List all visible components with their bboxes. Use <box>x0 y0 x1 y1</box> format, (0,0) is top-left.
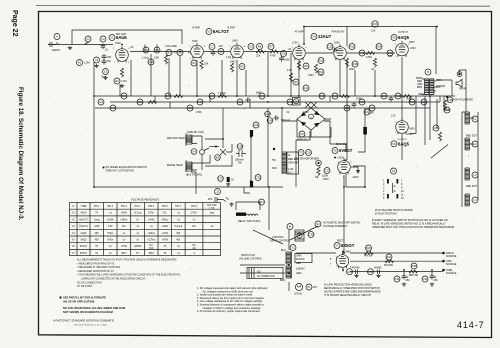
tube V2 label <box>206 29 229 35</box>
svg-text:C43: C43 <box>149 60 154 64</box>
svg-text:C31: C31 <box>347 270 352 274</box>
svg-text:2.2mg: 2.2mg <box>142 57 149 60</box>
svg-text:R25: R25 <box>333 94 338 98</box>
tube V7 6X5GT <box>330 251 352 270</box>
svg-text:+ MEASURED FROM PINS OF V5: + MEASURED FROM PINS OF V5 <box>77 262 115 265</box>
svg-text:40/450: 40/450 <box>352 267 360 270</box>
channel resistor R27 <box>406 98 415 106</box>
svg-text:100K: 100K <box>284 59 290 62</box>
resistor R11 <box>318 69 324 75</box>
ground input <box>68 46 72 50</box>
wire AVC loop top <box>72 30 182 45</box>
svg-text:SPKR: SPKR <box>459 88 466 91</box>
svg-text:PIN 4: PIN 4 <box>135 206 141 208</box>
svg-text:12AU7A: 12AU7A <box>79 225 88 228</box>
svg-text:+7KW: +7KW <box>162 240 169 242</box>
svg-text:C8: C8 <box>219 50 223 54</box>
wire V6 secondary drops <box>410 96 448 158</box>
svg-text:RED DOT: RED DOT <box>466 185 477 188</box>
svg-text:-240V: -240V <box>352 176 359 179</box>
svg-text:+320V: +320V <box>337 157 344 160</box>
capacitor C15 non-polarized <box>443 96 473 112</box>
svg-text:* MEASURED IN "RECORD" POSIT: * MEASURED IN "RECORD" POSITION <box>77 266 120 269</box>
svg-text:VOLUME: VOLUME <box>165 44 177 48</box>
svg-text:R44: R44 <box>370 106 375 110</box>
numbered notes <box>197 287 268 313</box>
table footnotes <box>77 259 181 289</box>
head switch SW2c X <box>215 144 232 160</box>
svg-text:BIAS OSC: BIAS OSC <box>336 143 348 146</box>
neon lamp NE1 <box>315 160 321 179</box>
boxed test point <box>293 98 301 106</box>
svg-text:C29: C29 <box>422 100 427 104</box>
channel capacitor C22 <box>381 93 393 102</box>
svg-text:V8: V8 <box>333 149 337 153</box>
svg-text:6X5GT: 6X5GT <box>80 253 88 255</box>
svg-text:R10: R10 <box>319 59 324 63</box>
svg-text:PL: PL <box>307 285 311 289</box>
svg-text:140V: 140V <box>232 40 238 43</box>
svg-text:6AQ5: 6AQ5 <box>81 232 88 235</box>
svg-text:1meg: 1meg <box>94 219 100 221</box>
svg-text:45K: 45K <box>95 233 100 235</box>
parts list note <box>59 296 125 314</box>
record head <box>167 131 204 149</box>
svg-text:R30: R30 <box>366 246 371 250</box>
svg-text:PIN 6: PIN 6 <box>162 206 168 208</box>
svg-text:B: B <box>295 99 297 103</box>
svg-text:±NC: ±NC <box>149 248 154 250</box>
svg-text:240V: 240V <box>308 74 314 77</box>
resistor R30 <box>364 245 374 258</box>
osc refs C45 <box>267 116 290 124</box>
svg-text:C9: C9 <box>249 45 253 49</box>
wire interconnect channel line 2 <box>110 101 440 103</box>
capacitor C32 <box>368 267 383 278</box>
svg-text:GRN: GRN <box>418 93 424 96</box>
wire main input bus <box>48 44 113 46</box>
switch legend SW1 <box>375 168 413 216</box>
svg-text:C10: C10 <box>281 52 286 56</box>
svg-text:6AL7GT: 6AL7GT <box>213 29 229 34</box>
svg-text:V1: V1 <box>110 36 114 40</box>
svg-text:TP: TP <box>163 253 166 255</box>
svg-text:GRN-WH: GRN-WH <box>288 162 299 165</box>
svg-text:R1: R1 <box>78 61 82 65</box>
test point A <box>54 34 60 40</box>
svg-text:R2: R2 <box>115 79 119 83</box>
svg-text:SOURCE: SOURCE <box>446 255 457 258</box>
svg-text:OPEN IN 7 1/2 POSITION: OPEN IN 7 1/2 POSITION <box>106 170 135 173</box>
wire head switch vertical <box>222 108 224 148</box>
svg-text:NE: NE <box>315 176 319 179</box>
channel ref R43 <box>196 99 203 114</box>
voltage table <box>70 198 221 256</box>
svg-text:RED DOT: RED DOT <box>466 135 477 138</box>
resistor R45 <box>352 61 358 67</box>
svg-text:NC: NC <box>192 245 196 247</box>
switch version note <box>372 219 454 229</box>
channel resistor R28 <box>319 93 325 99</box>
capacitor C13 <box>387 50 393 56</box>
capacitor C3 <box>94 57 100 63</box>
channel resistor R25 <box>332 93 350 99</box>
channel capacitor C29 <box>421 99 427 105</box>
svg-text:V6: V6 <box>392 142 396 146</box>
svg-text:RECORD HEAD: RECORD HEAD <box>167 137 185 140</box>
pilot lamp PL1 <box>294 283 318 295</box>
electrolytic C24 <box>250 122 259 137</box>
svg-text:R6: R6 <box>258 45 262 49</box>
svg-text:C7: C7 <box>210 45 214 49</box>
svg-text:C41: C41 <box>99 100 104 104</box>
svg-text:C28: C28 <box>345 106 350 110</box>
svg-text:380V: 380V <box>149 253 155 255</box>
svg-text:6.8K: 6.8K <box>154 57 159 60</box>
svg-text:C40: C40 <box>144 48 149 52</box>
svg-text:470K: 470K <box>270 55 276 58</box>
svg-text:160V: 160V <box>334 42 340 45</box>
resistor R1 <box>77 60 90 66</box>
svg-text:TP: TP <box>95 213 98 215</box>
automatic shutoff note <box>253 221 361 244</box>
wire electrolytic link <box>250 137 252 181</box>
svg-text:470K: 470K <box>196 111 202 114</box>
svg-text:-Kw: -Kw <box>192 248 196 250</box>
svg-text:240V: 240V <box>409 128 415 131</box>
svg-text:C44: C44 <box>265 112 270 116</box>
svg-text:+127Kw: +127Kw <box>147 240 156 242</box>
svg-text:RELAY (SHUT-OFF): RELAY (SHUT-OFF) <box>238 220 260 223</box>
resistor R12 <box>345 44 355 72</box>
svg-text:NC: NC <box>163 213 167 215</box>
speed switch note <box>103 166 148 173</box>
svg-text:C1: C1 <box>86 37 90 41</box>
svg-text:R22: R22 <box>166 94 171 98</box>
svg-text:C37: C37 <box>218 177 223 181</box>
RECT label <box>334 240 355 249</box>
svg-text:240V: 240V <box>410 47 416 50</box>
svg-text:C25: C25 <box>256 176 261 180</box>
svg-text:C32: C32 <box>368 270 373 274</box>
svg-text:R33: R33 <box>412 264 417 268</box>
resistor R6 <box>256 44 265 58</box>
svg-text:400V: 400V <box>323 178 329 181</box>
svg-text:6. All controls at minimum,: 6. All controls at minimum, proper outpu… <box>197 310 260 313</box>
svg-text:C38: C38 <box>238 145 243 149</box>
resistor R2 <box>114 68 126 84</box>
svg-text:40/450: 40/450 <box>374 267 382 270</box>
svg-text:C42: C42 <box>288 100 293 104</box>
channel capacitor C21 <box>237 98 251 105</box>
svg-text:R27: R27 <box>410 100 415 104</box>
ground C3 <box>94 64 98 68</box>
svg-text:500mmf: 500mmf <box>281 119 290 122</box>
capacitor C5 <box>101 69 109 79</box>
svg-text:11K: 11K <box>122 226 126 228</box>
svg-text:SEE PARTS LIST FOR ALTERNATE: SEE PARTS LIST FOR ALTERNATE <box>63 296 106 300</box>
svg-text:A PHOTOFACT STANDARD NOTATI: A PHOTOFACT STANDARD NOTATION SCHEMATIC <box>53 319 114 323</box>
svg-text:380V: 380V <box>121 253 127 255</box>
head switch SW2a <box>191 148 209 154</box>
svg-text:240Kw: 240Kw <box>161 219 168 221</box>
svg-text:TUBE: TUBE <box>80 206 87 208</box>
svg-text:R23: R23 <box>210 94 215 98</box>
svg-text:AF AMP: AF AMP <box>295 31 304 34</box>
svg-text:+2.2mg: +2.2mg <box>134 213 142 215</box>
svg-text:50.1: 50.1 <box>288 172 293 175</box>
capacitor C1 <box>85 36 91 42</box>
svg-text:C11: C11 <box>304 86 309 90</box>
output transformer T1 <box>416 69 442 96</box>
svg-text:150V: 150V <box>115 42 121 45</box>
svg-text:IF AMP: IF AMP <box>227 27 235 30</box>
wire top feedback bus <box>304 27 436 75</box>
wire V2 to V3 signal <box>204 51 230 53</box>
svg-text:RL1: RL1 <box>259 200 264 204</box>
wire V1 to V2 signal <box>130 51 190 53</box>
coupling refs R41 <box>154 47 160 60</box>
svg-text:C3: C3 <box>95 58 99 62</box>
bias coil L4 <box>465 185 478 206</box>
svg-text:6AU6: 6AU6 <box>116 35 127 40</box>
oscillator coil L5 <box>272 148 286 174</box>
BIAS OSC label <box>332 143 353 154</box>
wire head box <box>186 134 232 188</box>
tube V4b 12AU7 <box>334 42 347 61</box>
svg-text:170V: 170V <box>292 42 298 45</box>
mic jack J2 <box>208 189 229 203</box>
svg-text:+16KW: +16KW <box>134 246 142 248</box>
svg-text:R24: R24 <box>260 94 265 98</box>
svg-text:TP: TP <box>163 246 166 248</box>
svg-text:BLU: BLU <box>281 249 286 252</box>
svg-text:R31: R31 <box>387 255 392 259</box>
svg-text:6X5GT: 6X5GT <box>341 243 355 248</box>
svg-text:C22: C22 <box>382 94 387 98</box>
wire drop phase inverter <box>339 60 341 96</box>
wire bias osc area <box>282 121 346 187</box>
wire interconnect channel line 3 <box>95 107 430 109</box>
scan page top edge <box>36 5 490 8</box>
svg-text:NON-POLARIZED: NON-POLARIZED <box>453 99 473 102</box>
resistor R5 <box>230 63 245 72</box>
wire V3 to AF signal <box>244 51 292 53</box>
electrolytic C25 <box>250 175 261 188</box>
ground mic <box>229 203 233 207</box>
svg-text:R14: R14 <box>377 45 382 49</box>
wire transformer drop <box>289 230 432 291</box>
scan noise speckles <box>43 19 478 330</box>
svg-text:VALUE OR APPLICATION: VALUE OR APPLICATION <box>63 299 94 303</box>
svg-text:• MEASURED FROM PINS OF V3: • MEASURED FROM PINS OF V3 <box>77 270 114 273</box>
svg-text:M: M <box>289 225 291 229</box>
svg-text:6V6GT: 6V6GT <box>80 246 88 248</box>
svg-text:IF AMP: IF AMP <box>192 27 200 30</box>
channel resistor R24 <box>256 92 265 100</box>
svg-text:PHASE INV: PHASE INV <box>332 31 345 34</box>
svg-text:6AQ5: 6AQ5 <box>81 239 88 242</box>
svg-text:60N 5W: 60N 5W <box>384 264 394 267</box>
svg-text:R8: R8 <box>304 64 308 68</box>
svg-text:C20: C20 <box>188 106 193 110</box>
svg-text:PIN 8: PIN 8 <box>191 206 197 208</box>
svg-text:R29: R29 <box>396 94 401 98</box>
svg-text:TP: TP <box>136 253 139 255</box>
capacitor C10 <box>279 51 290 62</box>
svg-text:R13: R13 <box>360 51 365 55</box>
svg-text:SOURCE: SOURCE <box>446 272 457 275</box>
svg-text:V5: V5 <box>392 36 396 40</box>
svg-text:NO COIL RESISTANCE VALUES UNDE: NO COIL RESISTANCE VALUES UNDER ONE OHM <box>63 306 125 310</box>
resistor R8 <box>297 61 314 77</box>
svg-text:+240K: +240K <box>148 219 155 221</box>
svg-text:S4: S4 <box>192 150 196 154</box>
tube V4 label 12AU7 <box>311 34 332 40</box>
svg-text:+7KW: +7KW <box>121 246 128 248</box>
svg-text:BLK: BLK <box>436 86 441 89</box>
tube V3 6AL7GT second <box>226 40 243 64</box>
tube V6 6AQ5 <box>391 115 415 147</box>
svg-text:V4: V4 <box>312 35 316 39</box>
capacitor C14 <box>433 125 442 141</box>
transformer secondary bracket <box>295 254 312 263</box>
capacitor C23 180mmf <box>235 150 246 165</box>
svg-text:VOLUME CONTROL: VOLUME CONTROL <box>239 258 263 261</box>
B+ arrows <box>442 252 457 275</box>
svg-text:+100K: +100K <box>107 219 114 221</box>
channel ref C42 <box>286 99 293 114</box>
svg-text:.12V: .12V <box>218 45 223 48</box>
head cap C37 <box>218 176 235 186</box>
capacitor C7 <box>209 44 215 56</box>
resistor R9 <box>287 69 299 85</box>
svg-text:R5: R5 <box>240 65 244 69</box>
svg-text:(BLK RF, 24N): (BLK RF, 24N) <box>186 174 202 177</box>
svg-text:R42: R42 <box>111 106 116 110</box>
wire coil column <box>462 112 478 207</box>
osc coil label box <box>287 152 299 175</box>
svg-text:+1BK: +1BK <box>94 226 100 228</box>
svg-text:A: A <box>56 35 58 39</box>
resistor R14 <box>371 44 382 72</box>
resistor R15 top bus <box>371 21 378 33</box>
channel resistor R20 <box>121 93 127 99</box>
svg-text:230VAC: 230VAC <box>296 268 305 271</box>
svg-text:6AQ5: 6AQ5 <box>398 35 410 40</box>
svg-text:ERASE HEAD: ERASE HEAD <box>167 164 183 167</box>
svg-text:C34: C34 <box>423 277 428 281</box>
svg-text:100K: 100K <box>368 112 374 115</box>
svg-text:PIN 1: PIN 1 <box>94 206 100 208</box>
svg-text:115VAC: 115VAC <box>296 258 305 261</box>
svg-text:140Kw: 140Kw <box>120 219 127 221</box>
svg-text:680K: 680K <box>256 92 262 95</box>
head switch dot <box>209 146 219 148</box>
svg-text:87Kw: 87Kw <box>107 240 113 242</box>
osc refs C44 <box>265 111 271 117</box>
svg-text:M1: M1 <box>300 132 304 136</box>
svg-text:2.2M: 2.2M <box>121 80 126 83</box>
svg-text:S3: S3 <box>316 222 320 226</box>
svg-text:PIN 7: PIN 7 <box>175 206 181 208</box>
capacitor C4 stack <box>102 54 112 65</box>
resistor R7 <box>268 44 279 58</box>
svg-text:60N: 60N <box>272 167 277 170</box>
capacitor C8 <box>218 45 224 55</box>
capacitor C11 <box>303 85 309 91</box>
wire power area <box>240 253 443 273</box>
svg-text:R7: R7 <box>269 45 273 49</box>
speaker wires <box>436 70 466 112</box>
svg-text:7V: 7V <box>188 52 191 55</box>
coupling cap C43 <box>148 59 154 65</box>
svg-text:C21: C21 <box>238 100 243 104</box>
capacitor C6 coupling <box>177 50 183 56</box>
svg-text:† THIS READING WILL VARY DEP: † THIS READING WILL VARY DEPENDING UPON … <box>77 274 181 277</box>
svg-text:450: 450 <box>406 279 411 282</box>
svg-text:6V6GT: 6V6GT <box>339 148 353 153</box>
svg-text:87Kw: 87Kw <box>107 233 113 235</box>
svg-text:NC: NC <box>150 245 154 247</box>
resistor R13 <box>359 50 375 59</box>
bias coil L3 <box>465 168 478 180</box>
svg-text:DRIVE CONTROL: DRIVE CONTROL <box>270 240 291 243</box>
wire motor drop <box>268 187 270 230</box>
channel ref R44 <box>368 105 375 115</box>
wire drop V3 cathode <box>236 60 238 96</box>
capacitor C9 <box>248 44 254 50</box>
svg-text:R9: R9 <box>294 80 298 84</box>
osc transformer refs <box>294 150 319 161</box>
svg-text:6AL7GT: 6AL7GT <box>79 218 88 221</box>
svg-text:IT IS SHOWN DELETING RELAY CIR: IT IS SHOWN DELETING RELAY CIRCUIT. <box>324 294 372 297</box>
ground V1 cathode <box>120 84 124 88</box>
channel ticks <box>151 54 440 108</box>
svg-text:GRN: GRN <box>296 272 302 275</box>
channel ref R42 <box>110 105 116 111</box>
tube V5 label 6AQ5 <box>391 35 410 41</box>
radio input jack J1 <box>48 42 60 52</box>
svg-text:C45: C45 <box>268 119 273 123</box>
svg-text:240V: 240V <box>349 68 355 71</box>
svg-text:M2: M2 <box>216 156 220 160</box>
svg-text:OPERATED SHUT-OFF THRU LOCATIO: OPERATED SHUT-OFF THRU LOCATION ON TRANS… <box>372 226 454 229</box>
svg-text:414-7: 414-7 <box>457 320 485 330</box>
channel resistor R21 <box>137 99 157 105</box>
resistor R10 <box>314 58 324 78</box>
wire drop V2 cathode <box>196 60 198 96</box>
svg-text:Page 22: Page 22 <box>11 10 18 37</box>
svg-text:12AU7: 12AU7 <box>318 34 332 39</box>
svg-text:BRN: BRN <box>417 86 422 89</box>
svg-text:C24: C24 <box>254 123 259 127</box>
capacitor C2 <box>100 36 109 52</box>
svg-text:C5: C5 <box>104 70 108 74</box>
tube pin numbers <box>113 44 411 268</box>
tube V4a 12AU7 <box>288 42 305 61</box>
svg-text:45K: 45K <box>176 233 181 235</box>
svg-text:22K: 22K <box>256 55 261 58</box>
svg-text:CON: CON <box>436 79 442 82</box>
page number text <box>11 10 18 37</box>
svg-text:#47: #47 <box>313 286 318 289</box>
svg-text:R43: R43 <box>198 100 203 104</box>
feedback coil L6 <box>358 108 370 152</box>
bridge rectifier BR1 <box>297 108 325 142</box>
svg-text:NOT SHOWN ON SCHEMATIC DIAGRAM: NOT SHOWN ON SCHEMATIC DIAGRAM <box>63 310 113 314</box>
svg-text:250: 250 <box>107 56 112 59</box>
